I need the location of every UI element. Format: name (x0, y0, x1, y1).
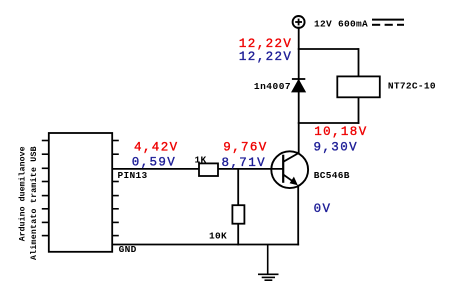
svg-text:Alimentato tramite USB: Alimentato tramite USB (29, 146, 39, 260)
svg-text:12,22V: 12,22V (239, 37, 292, 51)
svg-text:9,76V: 9,76V (223, 140, 268, 154)
wire: top branch to relay (298, 48, 359, 50)
svg-text:BC546B: BC546B (314, 170, 350, 181)
svg-text:1K: 1K (195, 154, 207, 165)
svg-text:4,42V: 4,42V (134, 141, 179, 155)
transistor Q1 BC546B (271, 151, 308, 188)
svg-text:10K: 10K (209, 230, 227, 241)
svg-text:9,30V: 9,30V (314, 141, 359, 155)
svg-text:GND: GND (119, 244, 137, 255)
wire: bottom branch back to main (298, 122, 360, 124)
svg-text:10,18V: 10,18V (314, 125, 367, 139)
svg-text:12,22V: 12,22V (239, 50, 292, 64)
svg-text:0,59V: 0,59V (132, 155, 177, 169)
power terminal + (293, 16, 305, 28)
DC supply symbol (372, 20, 404, 25)
svg-text:Arduino duemilanove: Arduino duemilanove (18, 146, 28, 241)
relay NT72C-10 (337, 76, 380, 97)
wire: relay top drop (358, 48, 360, 77)
wire: relay bottom drop (358, 97, 360, 124)
wire: PIN13 to 1K (112, 168, 200, 170)
svg-text:NT72C-10: NT72C-10 (388, 81, 436, 92)
Arduino box (49, 133, 112, 252)
Arduino left pin stubs (42, 141, 49, 236)
svg-text:1n4007: 1n4007 (254, 81, 291, 92)
wire: base node to 10K (237, 169, 239, 205)
diode 1n4007 (292, 79, 305, 92)
svg-text:PIN13: PIN13 (118, 170, 148, 181)
wire: main vertical from supply to collector (298, 27, 300, 154)
svg-text:0V: 0V (314, 202, 332, 216)
ground symbol (258, 245, 279, 281)
resistor 10K (232, 205, 244, 224)
Arduino right pin stubs (112, 141, 119, 236)
resistor 1K (199, 163, 218, 176)
wire: emitter down (297, 185, 299, 245)
wire: 10K to ground rail (237, 224, 239, 246)
svg-text:12V 600mA: 12V 600mA (314, 18, 368, 29)
wire: 1K to base (218, 168, 283, 170)
wire: ground rail (112, 244, 299, 246)
svg-text:8,71V: 8,71V (222, 156, 267, 170)
